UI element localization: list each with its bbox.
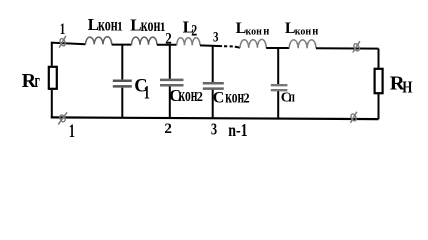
wire top segment D (node 3) [200, 44, 222, 47]
svg-text:1: 1 [117, 19, 123, 33]
svg-text:2: 2 [243, 90, 250, 106]
wire top segment C (node 2) [157, 44, 177, 46]
capacitor Ckon2 #1 branch bottom wire [169, 87, 171, 119]
svg-text:кон: кон [295, 27, 311, 38]
svg-text:n-1: n-1 [228, 121, 247, 141]
resistor Rn (load) [375, 69, 383, 93]
svg-text:г: г [35, 71, 40, 91]
svg-text:н: н [263, 25, 270, 38]
wire left vertical top segment [51, 43, 53, 66]
wire top segment F (Cp tap) [266, 47, 289, 49]
svg-text:п: п [289, 89, 296, 105]
wire right vertical top segment [378, 49, 380, 69]
wire top segment E (dots to Lkon-n) [235, 47, 240, 48]
capacitor Ckon2 #2 branch top wire [212, 46, 214, 82]
resistor Rg (generator) [49, 67, 57, 89]
break mark bottom-right [350, 112, 357, 123]
svg-text:1: 1 [60, 20, 65, 37]
inductor L2 [177, 38, 200, 46]
svg-text:кон: кон [98, 15, 118, 35]
svg-text:Н: Н [402, 79, 412, 97]
wire top segment G (to right corner) [316, 47, 379, 49]
wire top segment A (corner to L1) [51, 43, 86, 45]
wire right vertical bottom segment [378, 93, 380, 119]
svg-text:2: 2 [164, 121, 172, 137]
capacitor C1 branch bottom wire [121, 88, 123, 118]
inductor Lkon-n #1 [240, 39, 266, 47]
break mark bottom-left [58, 112, 67, 124]
svg-text:2: 2 [197, 89, 204, 105]
svg-text:кон: кон [246, 26, 262, 37]
inductor Lkon1 #2 [132, 37, 158, 45]
capacitor Cp plates [271, 85, 288, 90]
break mark top-right [353, 41, 361, 52]
capacitor Cp branch bottom wire [277, 91, 279, 119]
wire left vertical bottom segment [51, 90, 53, 118]
svg-text:3: 3 [213, 28, 219, 45]
capacitor Ckon2 #1 plates [160, 80, 184, 85]
capacitor Ckon2 #1 branch top wire [169, 45, 171, 79]
svg-text:кон: кон [225, 87, 244, 107]
wire top segment B (L1 to L2, C1 tap) [112, 44, 132, 46]
capacitor Cp branch top wire [277, 48, 279, 84]
svg-text:кон: кон [141, 16, 161, 36]
svg-text:3: 3 [211, 121, 217, 139]
wire ellipsis dashes [224, 45, 233, 47]
break mark top-left [59, 36, 67, 48]
capacitor C1 branch top wire [121, 45, 123, 80]
svg-text:С: С [213, 89, 225, 106]
svg-text:1: 1 [69, 121, 75, 141]
wire bottom rail [51, 117, 379, 119]
capacitor Ckon2 #2 plates [203, 83, 224, 88]
inductor Lkon-n #2 [289, 40, 316, 48]
svg-text:2: 2 [191, 22, 197, 40]
svg-text:кон: кон [179, 85, 198, 105]
capacitor C1 plates [113, 81, 132, 87]
svg-text:1: 1 [144, 83, 150, 103]
capacitor Ckon2 #2 branch bottom wire [212, 90, 214, 119]
svg-text:н: н [312, 25, 319, 38]
inductor Lkon1 #1 [86, 37, 112, 45]
